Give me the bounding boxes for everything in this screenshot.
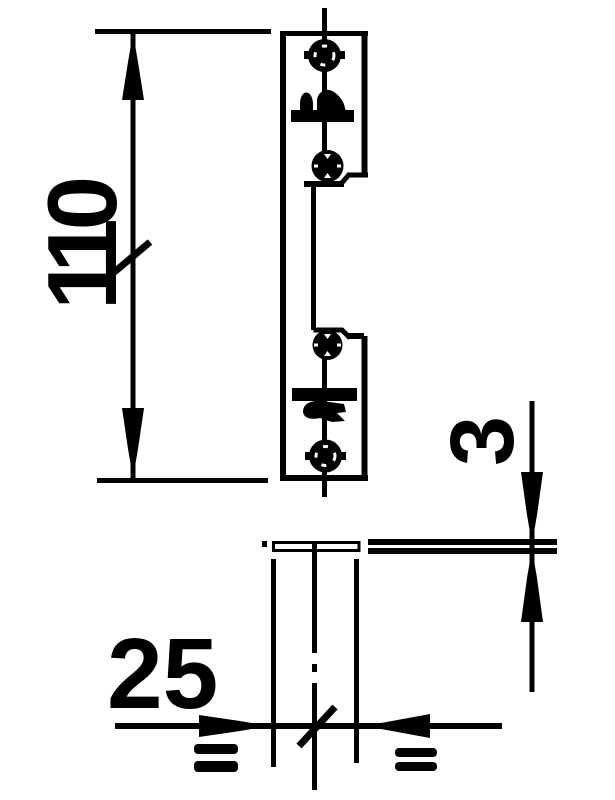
svg-text:25: 25 xyxy=(107,618,218,730)
svg-text:3: 3 xyxy=(433,416,533,466)
svg-text:110: 110 xyxy=(27,179,137,310)
